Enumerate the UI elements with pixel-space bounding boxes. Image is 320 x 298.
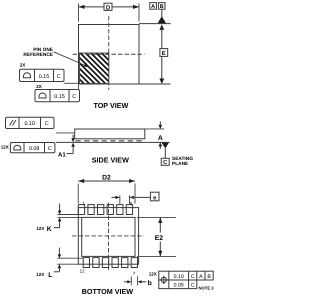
datum flag B box — [158, 3, 165, 10]
svg-text:E: E — [162, 50, 166, 57]
svg-text:0.15: 0.15 — [39, 74, 50, 80]
dimension D extension line left — [78, 4, 80, 22]
K extension lines — [58, 214, 79, 216]
dimension D arrowheads — [79, 5, 85, 9]
dimension E line lower — [161, 57, 163, 81]
svg-text:12X: 12X — [149, 272, 157, 277]
svg-text:C: C — [72, 94, 76, 100]
svg-text:K: K — [47, 226, 52, 233]
bottom pins row — [83, 258, 137, 268]
svg-text:C: C — [48, 146, 52, 152]
extension line from bottom-right corner — [139, 83, 171, 85]
datum C leader — [164, 149, 166, 159]
dimension E label box — [160, 49, 168, 57]
svg-text:B: B — [160, 4, 164, 10]
svg-text:0.15: 0.15 — [54, 94, 65, 100]
svg-text:C: C — [163, 160, 167, 166]
vertical centerline — [108, 16, 110, 90]
datum C triangle on seating plane — [162, 143, 169, 149]
feature control frame 2: profile 0.15 C — [35, 90, 80, 102]
svg-text:E2: E2 — [155, 235, 164, 242]
dimension D line — [79, 6, 105, 8]
D2 dimension line — [78, 180, 135, 182]
E2 dimension line — [159, 217, 161, 232]
L bottom arrow — [58, 264, 62, 268]
side view terminals — [76, 140, 145, 142]
package body outline (top view) — [79, 25, 140, 85]
svg-text:A: A — [158, 135, 163, 142]
svg-text:0.08: 0.08 — [29, 146, 40, 152]
svg-text:12X: 12X — [36, 226, 44, 231]
top pins row — [78, 205, 132, 215]
svg-text:0.10: 0.10 — [174, 274, 184, 280]
svg-text:C: C — [191, 274, 195, 280]
bottom view body outline — [78, 208, 138, 265]
K bottom arrow — [58, 218, 62, 222]
A1 upper arrow — [72, 135, 74, 139]
datum C box — [161, 158, 169, 165]
svg-text:B: B — [207, 274, 211, 280]
thermal pad — [82, 217, 135, 256]
svg-text:12X: 12X — [1, 144, 9, 149]
vertical centerline (bottom view) — [107, 203, 109, 271]
side view body — [75, 129, 145, 139]
A dimension bottom arrow — [159, 142, 163, 146]
svg-text:C: C — [191, 283, 195, 289]
leader frame1 to corner — [64, 82, 78, 84]
datum leader big arrowhead — [158, 16, 166, 23]
svg-text:A: A — [151, 4, 155, 10]
E2 extension lines — [137, 216, 176, 218]
e label box — [150, 192, 159, 201]
D2 extension line right — [134, 184, 136, 204]
e arrows — [112, 196, 117, 198]
dimension D extension line right — [138, 4, 140, 22]
pin one leader — [54, 52, 87, 66]
D2 extension line left — [77, 184, 79, 204]
dimension E line upper — [161, 27, 163, 48]
horizontal centerline (bottom view) — [72, 235, 144, 237]
svg-text:12X: 12X — [36, 272, 44, 277]
feature control frame 1: profile 0.15 C — [20, 69, 65, 81]
position symbol — [160, 276, 168, 284]
svg-text:D: D — [106, 4, 111, 11]
tolerance table frame — [159, 271, 213, 288]
A1 lower arrow — [71, 143, 75, 147]
svg-text:0.10: 0.10 — [24, 121, 35, 127]
svg-text:C: C — [45, 121, 49, 127]
seating plane line — [56, 141, 170, 143]
A dimension top arrow — [159, 122, 161, 126]
svg-text:D2: D2 — [102, 174, 111, 181]
svg-text:2X: 2X — [36, 84, 42, 89]
b arrows — [124, 281, 128, 283]
e extension lines — [119, 195, 121, 204]
svg-text:A1: A1 — [58, 151, 66, 158]
A1 leader and label — [67, 153, 74, 155]
horizontal centerline — [73, 53, 145, 55]
svg-text:NOTE 3: NOTE 3 — [199, 286, 215, 291]
svg-text:7: 7 — [133, 271, 136, 276]
b extension lines — [130, 276, 132, 285]
svg-text:0.05: 0.05 — [174, 283, 184, 289]
feature control frame 3: parallelism 0.10 C — [6, 117, 55, 128]
svg-text:2X: 2X — [20, 63, 26, 68]
datum flag A box — [150, 3, 157, 10]
extension line from top-right corner — [139, 23, 171, 25]
svg-text:SIDE VIEW: SIDE VIEW — [92, 155, 129, 164]
svg-text:12: 12 — [80, 269, 86, 274]
svg-text:BOTTOM VIEW: BOTTOM VIEW — [82, 287, 134, 296]
L extension lines — [57, 257, 83, 259]
extension line to body left — [56, 132, 75, 134]
svg-text:A: A — [199, 274, 203, 280]
svg-text:C: C — [57, 74, 61, 80]
dimension E top arrowhead — [159, 24, 164, 30]
svg-text:L: L — [48, 272, 52, 279]
A dimension extension line — [145, 128, 164, 130]
svg-text:TOP VIEW: TOP VIEW — [93, 101, 128, 110]
svg-text:SEATING: SEATING — [172, 156, 193, 162]
svg-text:PLANE: PLANE — [172, 161, 189, 167]
dimension E bottom arrowhead — [159, 79, 164, 85]
pin one hatch area — [79, 25, 109, 108]
leader square corner down to frame2 — [77, 83, 79, 89]
K top arrow — [59, 204, 61, 211]
svg-text:b: b — [148, 280, 152, 287]
feature control frame 4: profile 0.08 C — [10, 143, 55, 153]
L top arrow — [58, 248, 60, 255]
leader from datum B down to edge — [161, 9, 163, 17]
dimension label D box — [104, 3, 112, 10]
svg-text:REFERENCE: REFERENCE — [23, 52, 53, 58]
